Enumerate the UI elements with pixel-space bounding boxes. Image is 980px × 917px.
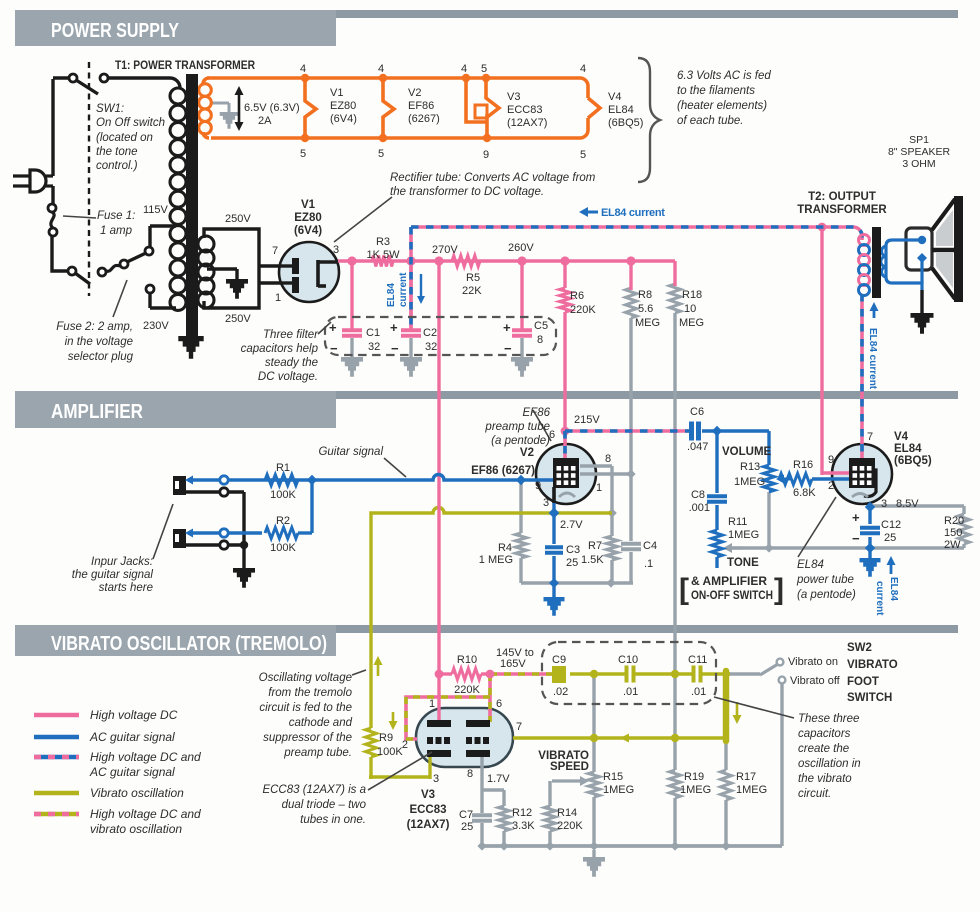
svg-text:230V: 230V — [143, 320, 169, 332]
svg-text:& AMPLIFIER: & AMPLIFIER — [691, 576, 768, 588]
svg-text:circuit.: circuit. — [798, 788, 831, 800]
svg-text:−: − — [391, 341, 399, 356]
svg-text:3: 3 — [433, 773, 439, 785]
svg-text:EL84: EL84 — [797, 559, 824, 571]
svg-text:EL84: EL84 — [608, 104, 634, 116]
svg-text:(6BQ5): (6BQ5) — [894, 455, 932, 467]
svg-text:C11: C11 — [688, 654, 707, 666]
svg-text:(located on: (located on — [96, 132, 153, 144]
svg-text:On Off switch: On Off switch — [96, 117, 165, 129]
svg-text:High voltage DC and: High voltage DC and — [90, 807, 201, 821]
svg-text:5: 5 — [378, 148, 384, 160]
svg-text:POWER SUPPLY: POWER SUPPLY — [51, 19, 179, 42]
svg-text:steady the: steady the — [265, 357, 318, 369]
svg-text:C3: C3 — [566, 544, 580, 556]
svg-text:250V: 250V — [225, 213, 251, 225]
svg-text:5: 5 — [580, 149, 586, 161]
svg-text:]: ] — [774, 573, 784, 606]
svg-text:C6: C6 — [690, 406, 704, 418]
svg-text:SW2: SW2 — [847, 642, 872, 654]
svg-text:115V: 115V — [143, 204, 169, 216]
svg-text:6.5V (6.3V): 6.5V (6.3V) — [244, 102, 300, 114]
svg-text:(a pentode): (a pentode) — [797, 589, 856, 601]
svg-text:25: 25 — [566, 557, 578, 569]
svg-text:tubes in one.: tubes in one. — [300, 814, 366, 826]
svg-text:V1: V1 — [301, 199, 316, 211]
svg-text:ECC83: ECC83 — [507, 104, 542, 116]
svg-text:100K: 100K — [270, 489, 296, 501]
svg-text:V4: V4 — [608, 91, 621, 103]
svg-text:.01: .01 — [691, 686, 706, 698]
svg-text:the guitar signal: the guitar signal — [72, 569, 154, 581]
svg-text:220K: 220K — [570, 304, 596, 316]
svg-text:C12: C12 — [881, 519, 901, 531]
svg-text:6: 6 — [496, 698, 502, 710]
svg-text:R15: R15 — [603, 771, 623, 783]
svg-text:C8: C8 — [691, 489, 705, 501]
svg-text:3.3K: 3.3K — [512, 820, 535, 832]
svg-text:Three filter: Three filter — [263, 329, 319, 341]
svg-text:C5: C5 — [534, 320, 548, 332]
svg-text:5: 5 — [481, 63, 487, 75]
svg-text:1 amp: 1 amp — [100, 225, 133, 237]
svg-text:EL84: EL84 — [888, 577, 899, 601]
svg-text:cathode and: cathode and — [289, 717, 353, 729]
svg-text:R16: R16 — [793, 459, 813, 471]
svg-text:9: 9 — [483, 149, 489, 161]
svg-text:1 MEG: 1 MEG — [479, 554, 513, 566]
svg-text:6.3 Volts AC is fed: 6.3 Volts AC is fed — [677, 70, 771, 82]
svg-text:.1: .1 — [644, 558, 653, 570]
svg-text:of each tube.: of each tube. — [677, 115, 744, 127]
svg-text:260V: 260V — [508, 242, 534, 254]
svg-text:8.5V: 8.5V — [896, 498, 919, 510]
svg-text:215V: 215V — [574, 414, 600, 426]
svg-text:R14: R14 — [557, 807, 577, 819]
svg-text:+: + — [390, 320, 398, 335]
svg-text:.047: .047 — [687, 441, 708, 453]
svg-text:EL84: EL84 — [386, 283, 397, 307]
svg-text:2W: 2W — [944, 539, 961, 551]
svg-text:Oscillating voltage: Oscillating voltage — [259, 672, 352, 684]
svg-text:DC voltage.: DC voltage. — [258, 371, 318, 383]
svg-text:1.5K: 1.5K — [581, 554, 604, 566]
svg-text:3: 3 — [333, 244, 339, 256]
svg-text:22K: 22K — [462, 285, 482, 297]
svg-text:R5: R5 — [466, 272, 480, 284]
svg-text:R17: R17 — [736, 771, 756, 783]
svg-text:capacitors: capacitors — [798, 728, 851, 740]
svg-text:(12AX7): (12AX7) — [507, 117, 547, 129]
svg-text:1MEG: 1MEG — [728, 529, 759, 541]
svg-text:R20: R20 — [944, 515, 964, 527]
svg-text:preamp tube: preamp tube — [484, 421, 550, 433]
svg-text:Inpur Jacks:: Inpur Jacks: — [91, 556, 153, 568]
svg-text:5: 5 — [300, 148, 306, 160]
svg-text:R2: R2 — [276, 515, 290, 527]
svg-text:C2: C2 — [423, 327, 437, 339]
svg-text:current: current — [398, 272, 409, 307]
svg-text:1: 1 — [596, 482, 602, 494]
svg-text:250V: 250V — [225, 313, 251, 325]
svg-text:FOOT: FOOT — [847, 676, 879, 688]
svg-text:1MEG: 1MEG — [680, 784, 711, 796]
svg-text:SP1: SP1 — [909, 134, 929, 146]
svg-text:create the: create the — [798, 743, 849, 755]
svg-text:−: − — [504, 341, 512, 356]
svg-text:9: 9 — [828, 454, 834, 466]
svg-text:Fuse 2: 2 amp,: Fuse 2: 2 amp, — [56, 321, 133, 333]
svg-text:1K 5W: 1K 5W — [366, 249, 400, 261]
svg-text:EZ80: EZ80 — [330, 100, 356, 112]
svg-text:(a pentode): (a pentode) — [491, 435, 550, 447]
svg-text:5.6: 5.6 — [638, 303, 653, 315]
svg-text:(heater elements): (heater elements) — [677, 100, 767, 112]
svg-text:Guitar signal: Guitar signal — [318, 446, 383, 458]
svg-text:R13: R13 — [740, 461, 760, 473]
svg-text:1MEG: 1MEG — [734, 476, 765, 488]
svg-text:.01: .01 — [623, 686, 638, 698]
svg-text:32: 32 — [425, 341, 437, 353]
svg-text:25: 25 — [884, 532, 896, 544]
svg-text:R8: R8 — [638, 289, 652, 301]
svg-text:C7: C7 — [459, 809, 473, 821]
svg-text:+: + — [503, 320, 511, 335]
svg-text:oscillation in: oscillation in — [798, 758, 861, 770]
svg-text:6: 6 — [549, 429, 555, 441]
svg-text:(6267): (6267) — [408, 113, 440, 125]
svg-text:9: 9 — [535, 480, 541, 492]
svg-text:−: − — [330, 341, 338, 356]
svg-text:V2: V2 — [408, 87, 421, 99]
svg-text:(6V4): (6V4) — [294, 225, 322, 237]
svg-text:1: 1 — [275, 292, 281, 304]
svg-text:from the tremolo: from the tremolo — [268, 687, 352, 699]
svg-text:V4: V4 — [894, 431, 909, 443]
svg-text:VOLUME: VOLUME — [722, 446, 772, 458]
svg-text:EL84: EL84 — [894, 443, 922, 455]
svg-text:R11: R11 — [728, 516, 747, 528]
svg-text:3: 3 — [881, 498, 887, 510]
svg-text:T2: OUTPUT: T2: OUTPUT — [808, 191, 876, 203]
svg-text:ECC83: ECC83 — [409, 804, 446, 816]
svg-text:AC guitar signal: AC guitar signal — [89, 765, 175, 779]
svg-text:AC guitar signal: AC guitar signal — [89, 730, 175, 744]
svg-text:2: 2 — [402, 739, 408, 751]
svg-text:165V: 165V — [500, 658, 526, 670]
svg-text:starts here: starts here — [99, 582, 153, 594]
svg-text:vibrato oscillation: vibrato oscillation — [90, 822, 182, 836]
svg-text:.001: .001 — [689, 502, 710, 514]
svg-text:SPEED: SPEED — [550, 761, 589, 773]
svg-text:220K: 220K — [557, 820, 583, 832]
svg-text:EL84 current: EL84 current — [867, 328, 878, 390]
svg-text:R7: R7 — [588, 540, 602, 552]
svg-text:MEG: MEG — [679, 317, 704, 329]
svg-text:150: 150 — [944, 527, 962, 539]
svg-text:(6BQ5): (6BQ5) — [608, 117, 643, 129]
svg-text:R18: R18 — [682, 289, 702, 301]
svg-text:8: 8 — [467, 768, 473, 780]
svg-text:.02: .02 — [553, 686, 568, 698]
svg-text:in the voltage: in the voltage — [65, 336, 133, 348]
svg-text:V3: V3 — [507, 91, 520, 103]
svg-text:8: 8 — [537, 334, 543, 346]
svg-text:AMPLIFIER: AMPLIFIER — [51, 400, 143, 423]
svg-text:power tube: power tube — [796, 574, 854, 586]
svg-text:Vibrato off: Vibrato off — [790, 675, 841, 687]
svg-text:8" SPEAKER: 8" SPEAKER — [888, 146, 951, 158]
svg-text:270V: 270V — [432, 244, 458, 256]
svg-text:R1: R1 — [276, 462, 290, 474]
svg-text:EF86: EF86 — [408, 100, 434, 112]
svg-text:dual triode – two: dual triode – two — [282, 799, 367, 811]
svg-text:2A: 2A — [258, 115, 272, 127]
svg-text:MEG: MEG — [635, 317, 660, 329]
svg-text:4: 4 — [580, 63, 586, 75]
svg-text:100K: 100K — [270, 542, 296, 554]
svg-text:25: 25 — [461, 821, 473, 833]
svg-text:(6V4): (6V4) — [330, 113, 357, 125]
svg-text:preamp tube.: preamp tube. — [283, 747, 352, 759]
svg-text:current: current — [874, 581, 885, 616]
svg-text:High voltage DC and: High voltage DC and — [90, 750, 201, 764]
svg-text:7: 7 — [516, 721, 522, 733]
svg-text:circuit is fed to the: circuit is fed to the — [259, 702, 352, 714]
svg-text:8: 8 — [605, 453, 611, 465]
svg-text:VIBRATO OSCILLATOR (TREMOLO): VIBRATO OSCILLATOR (TREMOLO) — [51, 632, 327, 655]
svg-text:VIBRATO: VIBRATO — [847, 659, 898, 671]
svg-text:4: 4 — [461, 63, 467, 75]
svg-text:C9: C9 — [552, 654, 566, 666]
svg-text:C4: C4 — [643, 540, 657, 552]
svg-text:V1: V1 — [330, 87, 343, 99]
svg-text:V3: V3 — [421, 789, 435, 801]
svg-text:EL84 current: EL84 current — [601, 207, 665, 219]
svg-text:the tone: the tone — [96, 146, 138, 158]
svg-text:3: 3 — [543, 497, 549, 509]
svg-text:Fuse 1:: Fuse 1: — [97, 210, 135, 222]
svg-text:R10: R10 — [457, 654, 477, 666]
svg-text:Vibrato on: Vibrato on — [788, 656, 838, 668]
svg-text:R3: R3 — [376, 236, 390, 248]
svg-text:220K: 220K — [454, 684, 480, 696]
svg-text:3 OHM: 3 OHM — [902, 158, 935, 170]
svg-text:1MEG: 1MEG — [603, 784, 634, 796]
svg-text:Rectifier tube: Converts AC vo: Rectifier tube: Converts AC voltage from — [390, 172, 596, 184]
svg-text:EF86: EF86 — [523, 407, 551, 419]
svg-text:the transformer to DC voltage.: the transformer to DC voltage. — [390, 186, 544, 198]
svg-text:7: 7 — [272, 245, 278, 257]
svg-text:1.7V: 1.7V — [487, 773, 510, 785]
svg-text:[: [ — [679, 573, 689, 606]
svg-text:+: + — [852, 510, 860, 525]
svg-text:V2: V2 — [520, 447, 534, 459]
svg-text:−: − — [852, 531, 860, 546]
svg-text:suppressor of the: suppressor of the — [263, 732, 352, 744]
svg-text:ECC83 (12AX7) is a: ECC83 (12AX7) is a — [262, 784, 366, 796]
svg-text:100K: 100K — [377, 746, 403, 758]
svg-text:EZ80: EZ80 — [294, 212, 322, 224]
svg-text:the vibrato: the vibrato — [798, 773, 852, 785]
svg-text:C10: C10 — [618, 654, 638, 666]
svg-text:32: 32 — [368, 341, 380, 353]
svg-text:R6: R6 — [570, 290, 584, 302]
svg-text:2: 2 — [828, 480, 834, 492]
svg-text:capacitors help: capacitors help — [241, 343, 319, 355]
svg-text:10: 10 — [684, 303, 696, 315]
svg-text:EF86 (6267): EF86 (6267) — [471, 465, 535, 477]
svg-text:R12: R12 — [512, 807, 532, 819]
svg-text:TRANSFORMER: TRANSFORMER — [797, 204, 887, 216]
svg-text:ON-OFF SWITCH: ON-OFF SWITCH — [691, 590, 773, 602]
svg-text:TONE: TONE — [727, 557, 759, 569]
svg-text:T1: POWER TRANSFORMER: T1: POWER TRANSFORMER — [115, 60, 256, 72]
svg-text:These three: These three — [798, 713, 859, 725]
svg-text:4: 4 — [378, 63, 384, 75]
svg-text:R9: R9 — [379, 732, 393, 744]
svg-text:R19: R19 — [684, 771, 704, 783]
svg-text:selector plug: selector plug — [68, 351, 134, 363]
svg-text:2.7V: 2.7V — [560, 519, 583, 531]
svg-text:High voltage DC: High voltage DC — [90, 708, 178, 722]
svg-text:6.8K: 6.8K — [793, 487, 816, 499]
svg-text:1MEG: 1MEG — [736, 784, 767, 796]
svg-text:4: 4 — [300, 63, 306, 75]
svg-text:control.): control.) — [96, 160, 138, 172]
svg-text:Vibrato oscillation: Vibrato oscillation — [90, 786, 184, 800]
svg-text:(12AX7): (12AX7) — [407, 819, 450, 831]
svg-text:C1: C1 — [366, 327, 380, 339]
svg-text:to the filaments: to the filaments — [677, 85, 755, 97]
svg-text:SWITCH: SWITCH — [847, 692, 892, 704]
svg-text:+: + — [329, 320, 337, 335]
svg-text:7: 7 — [867, 431, 873, 443]
svg-text:R4: R4 — [498, 542, 512, 554]
svg-text:SW1:: SW1: — [96, 103, 124, 115]
svg-text:1: 1 — [429, 698, 435, 710]
